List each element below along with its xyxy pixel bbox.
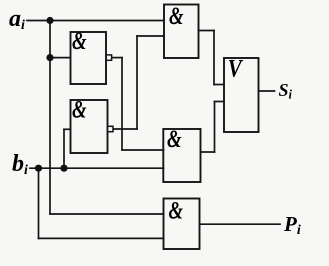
NAND gate N1 body (inverter for a_i) [71,32,107,84]
wire a_i input horizontal [27,20,164,22]
wire b_i stub into NAND N2 input [64,128,71,130]
svg-text:&: & [72,95,87,123]
wire AND G1 output vertical down [213,31,215,85]
wire OR V1 output to S_i [259,90,275,92]
wire AND G1 output horizontal [199,30,215,32]
wire a_i branch to AND G3 lower input [50,213,164,215]
svg-text:&: & [169,196,184,224]
node dot on b_i at NAND N2 branch [60,165,67,172]
OR gate V1 body [224,58,259,132]
node dot on a_i at top branch [46,17,53,24]
svg-text:&: & [167,124,182,152]
AND gate G2 body (middle) [163,129,200,182]
wire NAND N1 output vertical down [121,58,123,150]
wire b_i vertical branch down [38,168,40,238]
NAND gate N2 body (inverter for b_i) [71,100,108,153]
wire AND G2 output horizontal [201,151,215,153]
wire AND G2 output vertical up [214,102,216,153]
svg-text:&: & [169,1,184,29]
AND gate G3 body (bottom, carry) [164,199,200,250]
svg-text:&: & [72,26,87,54]
wire a_i branch into NAND N1 [50,57,71,59]
node dot on b_i at lower branch [35,165,42,172]
wire b_i branch up into NAND N2 [63,129,65,168]
node dot on a_i at NAND N1 input [46,54,53,61]
wire NAND N2 output vertical up [136,36,138,129]
wire b_i input horizontal [30,167,164,169]
wire NAND N1 output into AND G2 upper input [122,149,164,151]
wire NAND N2 output into AND G1 lower input [137,35,164,37]
wire NAND N1 output to vertical [112,57,123,59]
wire a_i vertical branch [49,21,51,215]
wire into OR V1 lower input [215,101,225,103]
svg-text:V: V [228,54,243,82]
NAND gate N1 inversion square [106,55,111,60]
wire NAND N2 output horizontal [113,128,137,130]
NAND gate N2 inversion square [108,126,113,131]
AND gate G1 body (top) [164,5,199,59]
wire into OR V1 upper input [214,84,224,86]
wire AND G3 output to P_i [200,223,281,225]
wire b_i branch to AND G3 bottom input [39,237,164,239]
